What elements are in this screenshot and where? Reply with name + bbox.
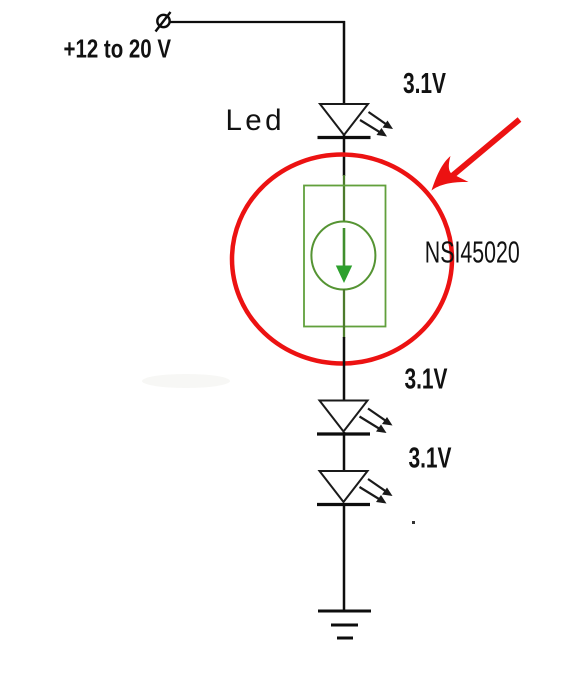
svg-text:Led: Led	[226, 104, 285, 137]
green circle	[311, 222, 375, 290]
green lead top	[343, 175, 345, 222]
svg-text:3.1V: 3.1V	[409, 443, 452, 475]
LED D1	[318, 104, 394, 138]
svg-text:3.1V: 3.1V	[405, 364, 448, 396]
wire: current source to LED D2	[343, 337, 346, 401]
current source U1 NSI45020 (green)	[304, 175, 386, 338]
wire: LED D1 cathode to current source	[343, 135, 346, 176]
red annotation arrow	[432, 120, 520, 191]
svg-text:NSI45020: NSI45020	[425, 236, 520, 270]
svg-text:+12 to 20 V: +12 to 20 V	[64, 33, 172, 63]
faint smudge artifact	[142, 374, 230, 388]
ground symbol	[318, 611, 371, 638]
current arrow shaft	[343, 228, 346, 268]
wire: vertical from corner down to LED D1	[343, 21, 346, 105]
green lead bottom	[343, 289, 345, 338]
terminal +V (circle with slash)	[156, 12, 171, 32]
red highlight circle around current source	[232, 155, 452, 364]
green body rectangle	[304, 186, 386, 327]
svg-text:3.1V: 3.1V	[403, 68, 446, 100]
wire: LED D3 cathode to ground	[343, 503, 346, 611]
wire: horizontal top from source terminal to corner	[169, 21, 345, 23]
stray dot artifact	[412, 521, 415, 524]
LED D2	[317, 401, 393, 435]
LED D3	[317, 471, 393, 505]
wire: LED D2 to LED D3	[343, 432, 346, 472]
current arrow head	[336, 266, 352, 284]
